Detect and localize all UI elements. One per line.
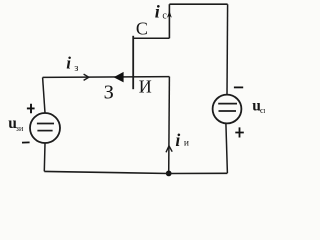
svg-text:i: i xyxy=(66,54,71,73)
wire: u_зи bottom lead xyxy=(43,143,46,171)
svg-text:З: З xyxy=(104,82,114,104)
+ polarity of u_си xyxy=(235,127,244,137)
svg-text:зи: зи xyxy=(16,124,24,133)
current arrow i_з xyxy=(84,74,89,80)
+ polarity of u_зи xyxy=(27,104,35,113)
wire: top rail xyxy=(169,3,227,5)
svg-text:i: i xyxy=(155,2,160,22)
svg-text:з: з xyxy=(74,63,78,74)
svg-text:си: си xyxy=(260,105,265,115)
current arrow i_с xyxy=(167,11,172,18)
svg-text:и: и xyxy=(184,138,189,148)
wire: u_си bottom lead to bottom rail xyxy=(226,123,228,173)
wire: bottom rail xyxy=(44,171,227,173)
wire: drain lead horizontal xyxy=(133,37,169,39)
voltage source u_зи xyxy=(30,113,60,143)
transistor VT: channel bar xyxy=(132,36,134,89)
wire: right branch down to u_си xyxy=(226,4,229,95)
wire: drain vertical up to top rail xyxy=(168,4,170,38)
− polarity of u_си xyxy=(234,86,243,88)
junction node xyxy=(166,171,172,177)
transistor VT: gate arrowhead xyxy=(114,72,124,83)
wire: u_зи top lead up to gate corner xyxy=(43,77,45,113)
svg-text:И: И xyxy=(139,77,152,97)
svg-text:с: с xyxy=(162,10,167,21)
current arrow i_и xyxy=(166,146,172,153)
voltage source u_си xyxy=(213,95,242,124)
− polarity of u_зи xyxy=(22,141,30,143)
svg-text:i: i xyxy=(175,130,180,150)
svg-text:С: С xyxy=(136,19,148,39)
wire: source lead И vertical down to junction xyxy=(168,77,171,174)
wire: gate horizontal from corner through transistor to source-lead corner xyxy=(43,76,170,79)
